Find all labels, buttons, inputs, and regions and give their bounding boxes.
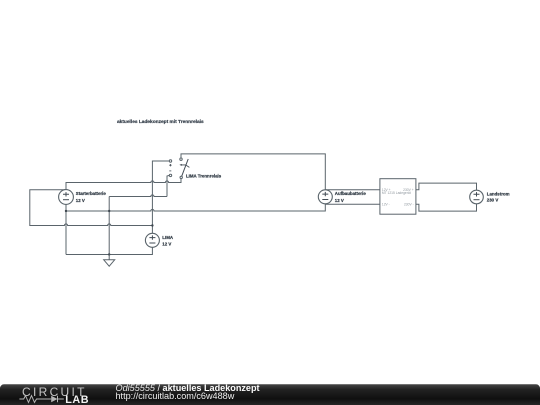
svg-text:MT 1215 Ladegerät: MT 1215 Ladegerät bbox=[382, 191, 411, 195]
relay coil polarity marks + and - bbox=[169, 164, 171, 171]
svg-text:230 V: 230 V bbox=[487, 198, 499, 203]
svg-text:Starterbatterie: Starterbatterie bbox=[76, 191, 107, 196]
wire: relay switch top contact to Aufbaubatterie + (y=154) bbox=[181, 154, 325, 190]
wire: bottom rail y=254.5 from battery to LIMA - bbox=[66, 247, 152, 254]
charger pin labels bbox=[382, 188, 414, 206]
relay K1 LIMA Trennrelais: coil terminals bbox=[169, 160, 171, 177]
relay actuation arrow bbox=[181, 165, 189, 168]
CircuitLab logo circuit doodle (resistor and diode) bbox=[19, 396, 63, 403]
label Aufbaubatterie 12 V bbox=[335, 191, 367, 203]
wire: left loop from Starterbatterie + down to y=225.5 rail toward LIMA +, hops at x=66 and x=109.2 bbox=[30, 190, 153, 226]
junction dot ground branch on negative rail (109.2,211) bbox=[108, 210, 110, 212]
svg-text:LIMA Trennrelais: LIMA Trennrelais bbox=[186, 173, 222, 178]
label Starterbatterie 12 V bbox=[76, 191, 107, 203]
relay switch contacts bbox=[180, 158, 183, 179]
wire: horizontal y=196.5 from ground vertical to coil - vertical bbox=[109, 195, 167, 197]
wire: Starterbatterie - vertical down to bottom rail bbox=[65, 204, 67, 254]
wire: charger 230V+ to Landstrom + bbox=[416, 183, 477, 190]
svg-text:12 V: 12 V bbox=[76, 198, 85, 203]
svg-text:LAB: LAB bbox=[65, 394, 89, 405]
wire: Aufbaubatterie - to charger 12V- terminal bbox=[325, 203, 380, 205]
wire: relay coil - down to ground node, y=196.5, hop over LIMA wire bbox=[167, 175, 169, 196]
wire: charger 230V- to Landstrom - bbox=[416, 204, 477, 211]
wire: Aufbaubatterie + to charger 12V+ terminal bbox=[325, 189, 380, 191]
wire: negative rail y=211 from Starterbatterie to Aufbaubatterie -, hop over LIMA wire bbox=[66, 204, 325, 211]
label Landstrom 230 V bbox=[487, 191, 510, 202]
voltage source V3 Aufbaubatterie 12 V bbox=[318, 190, 332, 204]
footer bar bbox=[0, 384, 540, 405]
svg-text:12V -: 12V - bbox=[382, 202, 390, 206]
junction dot LIMA + on y=225.5 rail (152.4,225.5) bbox=[151, 224, 153, 226]
svg-text:aktuelles Ladekonzept mit Tren: aktuelles Ladekonzept mit Trennrelais bbox=[117, 119, 204, 125]
svg-text:230V -: 230V - bbox=[404, 202, 414, 206]
voltage source V4 Landstrom 230 V bbox=[470, 190, 484, 204]
svg-text:Aufbaubatterie: Aufbaubatterie bbox=[335, 191, 367, 196]
junction dot at battery - / negative rail (66,211) bbox=[65, 210, 67, 212]
svg-text:Landstrom: Landstrom bbox=[487, 191, 510, 196]
wire: Starterbatterie + up and right to relay switch common (y=182), hops over LIMA and coil wires bbox=[66, 179, 181, 190]
svg-text:LIMA: LIMA bbox=[162, 235, 174, 240]
wire: ground vertical x=109.2 from y=196.5 to bottom rail bbox=[108, 197, 110, 255]
svg-text:12 V: 12 V bbox=[162, 241, 171, 246]
wire: LIMA + vertical up to relay coil + bbox=[152, 161, 169, 233]
svg-text:12 V: 12 V bbox=[335, 198, 344, 203]
voltage source V2 LIMA 12 V bbox=[145, 233, 159, 247]
ground symbol bbox=[104, 255, 115, 267]
junction dot ground branch on bottom rail (109.2,254.5) bbox=[108, 253, 110, 255]
relay switch blade bbox=[182, 159, 189, 176]
charger box U1 MT 1215 Ladegeraet bbox=[380, 179, 416, 215]
voltage source V1 Starterbatterie 12 V bbox=[59, 190, 74, 205]
svg-text:http://circuitlab.com/c6w488w: http://circuitlab.com/c6w488w bbox=[116, 391, 235, 401]
label LIMA 12 V bbox=[162, 235, 174, 247]
